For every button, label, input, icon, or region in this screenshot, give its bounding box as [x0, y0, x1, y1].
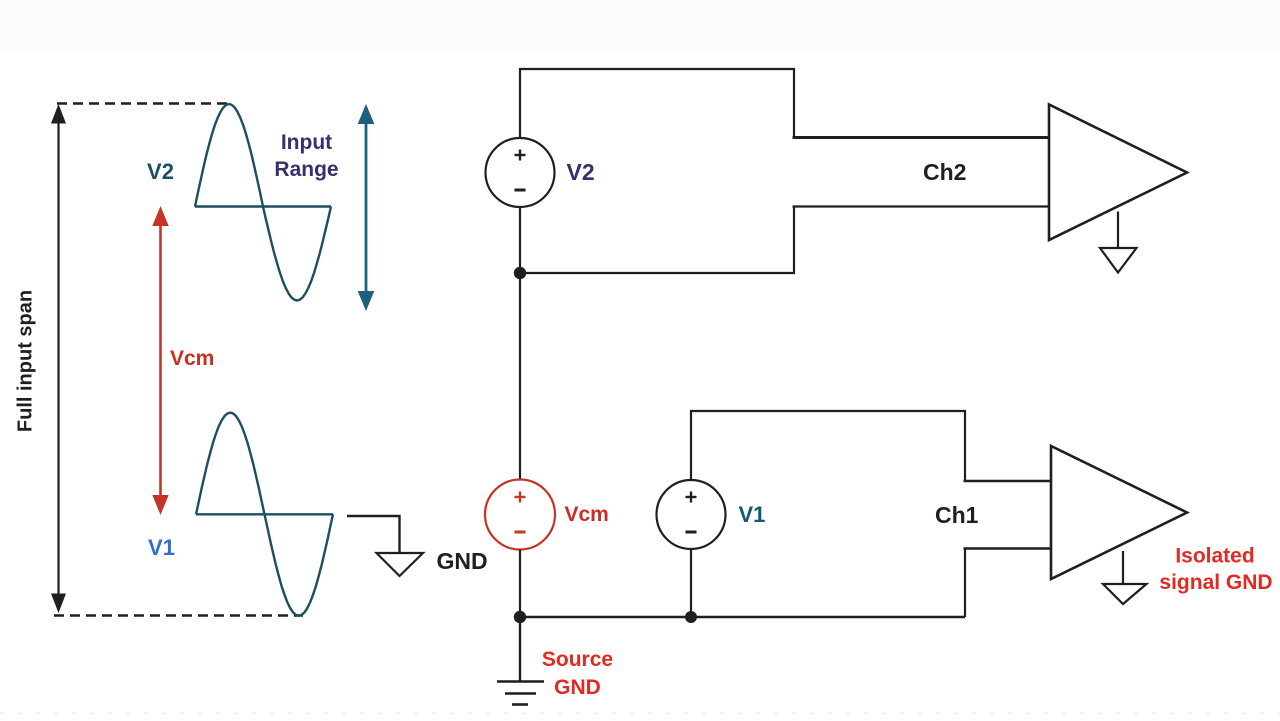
node V1 junction: [685, 611, 697, 623]
ground source GND bars: [497, 682, 544, 705]
source V1: [657, 480, 726, 549]
ground (Ch2): [1100, 248, 1137, 273]
wire V1 top loop: [691, 411, 965, 481]
wire Ch1 return loop: [964, 549, 966, 618]
input range arrow: [358, 104, 375, 311]
wire Ch2 bottom input: [793, 205, 1050, 207]
svg-text:Ch2: Ch2: [923, 159, 966, 185]
node junction V2 return: [514, 267, 526, 279]
wire Ch1 top input: [964, 480, 1052, 482]
wire Ch2 ground stub: [1117, 212, 1119, 249]
svg-text:Input: Input: [281, 131, 332, 154]
wire Ch2 top input: [793, 136, 1050, 139]
svg-text:GND: GND: [437, 548, 488, 574]
svg-text:V2: V2: [567, 159, 595, 185]
svg-text:Vcm: Vcm: [565, 503, 609, 526]
wire bottom rail: [520, 616, 965, 619]
wire V2 top loop: [520, 69, 794, 138]
Vcm arrow: [152, 206, 168, 515]
source Vcm: [485, 480, 555, 550]
node source-gnd junction: [514, 611, 526, 623]
faint artifact line: [0, 713, 1280, 715]
ground GND (left): [377, 553, 424, 576]
wire Vcm to bottom node: [519, 550, 521, 618]
source V2: [486, 138, 555, 207]
op-amp Ch1: [1051, 446, 1187, 579]
V1 waveform axis: [196, 513, 333, 515]
svg-text:Full input span: Full input span: [15, 290, 37, 432]
V2 waveform axis: [195, 205, 331, 207]
V1 sine wave: [196, 413, 333, 616]
full input span arrow: [51, 104, 66, 613]
svg-text:Range: Range: [274, 158, 338, 181]
svg-text:V1: V1: [148, 535, 175, 560]
svg-text:Vcm: Vcm: [170, 347, 214, 370]
V2 sine wave: [195, 104, 331, 301]
op-amp Ch2: [1049, 105, 1187, 241]
ground (Ch1, isolated): [1103, 584, 1147, 604]
svg-text:V1: V1: [739, 502, 766, 527]
svg-text:Source: Source: [542, 648, 613, 671]
svg-text:GND: GND: [554, 676, 601, 699]
svg-text:Ch1: Ch1: [935, 502, 979, 528]
wire V1 bottom to rail: [690, 549, 692, 617]
wire Ch1 ground stub: [1122, 551, 1124, 584]
svg-text:V2: V2: [147, 159, 174, 184]
svg-text:signal GND: signal GND: [1159, 571, 1272, 594]
wire Ch2 return loop: [520, 207, 794, 274]
wire waveform to GND: [347, 516, 400, 552]
wire Ch1 bottom input: [964, 547, 1052, 549]
dashed bottom limit line: [54, 614, 303, 616]
wire source gnd drop: [519, 617, 521, 681]
wire V2 minus down: [519, 207, 521, 480]
dashed top limit line: [57, 102, 229, 104]
svg-text:Isolated: Isolated: [1175, 545, 1254, 568]
